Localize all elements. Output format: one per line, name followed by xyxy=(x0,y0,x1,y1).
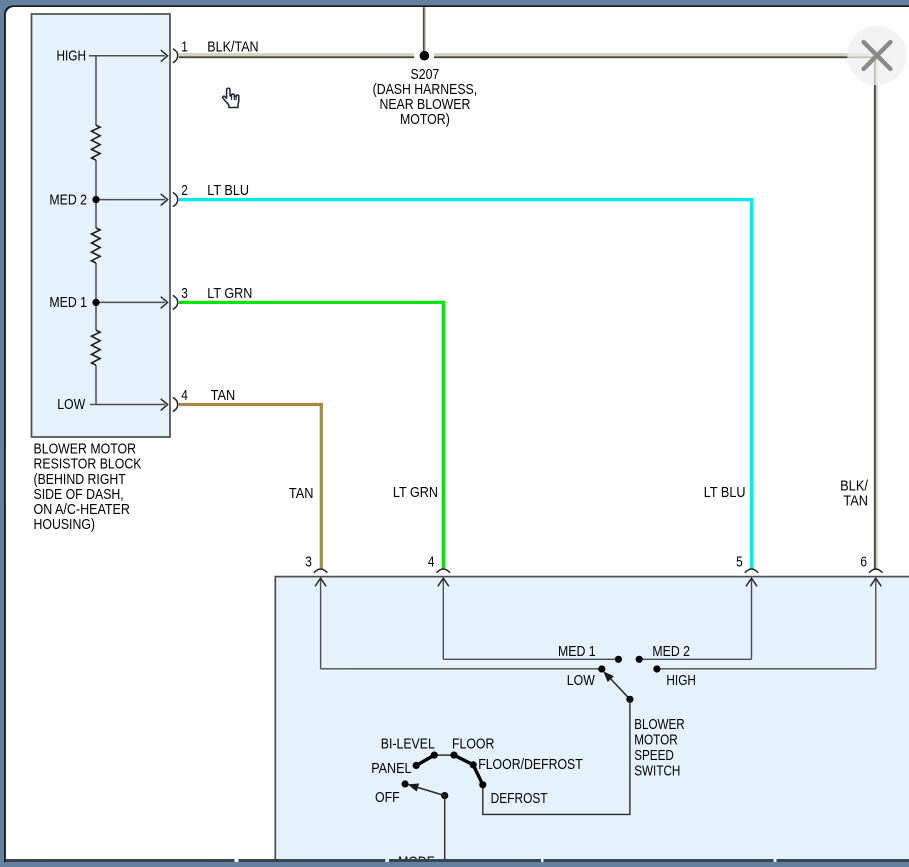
wire LT BLU horizontal xyxy=(179,198,753,201)
svg-text:3: 3 xyxy=(305,555,312,571)
svg-text:LT BLU: LT BLU xyxy=(704,485,746,501)
contact dot OFF xyxy=(402,780,409,787)
label S207 xyxy=(373,67,478,128)
wire TAN horizontal xyxy=(179,403,323,406)
svg-text:HIGH: HIGH xyxy=(57,49,87,65)
contact dot MED2 xyxy=(636,656,643,663)
mode wiper pivot dot xyxy=(441,792,448,799)
wire BLK/TAN S207 stub vertical xyxy=(423,7,426,52)
svg-text:DEFROST: DEFROST xyxy=(491,791,548,807)
svg-text:PANEL: PANEL xyxy=(371,761,411,777)
mode wiper arrow to OFF xyxy=(409,784,445,796)
svg-text:LT GRN: LT GRN xyxy=(393,485,438,501)
wire BLK/TAN horizontal xyxy=(179,53,878,58)
wire MED2 contact to pin5 xyxy=(639,658,751,660)
resistor element 3 xyxy=(92,330,101,365)
wire LT GRN vertical drop xyxy=(442,301,445,569)
wire pin3 to LOW contact xyxy=(321,668,602,670)
switch pin 5 cap xyxy=(745,569,759,573)
switch pin 3 arrow xyxy=(315,578,326,669)
wire LT BLU vertical drop xyxy=(750,198,753,569)
svg-text:MED 2: MED 2 xyxy=(49,192,87,208)
contact dot DEFROST xyxy=(479,781,486,788)
svg-text:2: 2 xyxy=(181,183,188,199)
svg-text:FLOOR: FLOOR xyxy=(452,736,494,752)
svg-text:LOW: LOW xyxy=(567,673,595,689)
switch pin 6 cap xyxy=(869,569,883,573)
svg-text:LOW: LOW xyxy=(57,397,85,413)
svg-text:HOUSING): HOUSING) xyxy=(34,517,96,533)
blower motor speed switch box xyxy=(275,577,909,867)
vertical drop label BLK/TAN xyxy=(840,479,869,510)
blower motor resistor block box xyxy=(32,14,171,437)
page bottom border band xyxy=(4,859,909,862)
svg-text:SPEED: SPEED xyxy=(634,748,674,764)
svg-text:S207: S207 xyxy=(411,67,440,83)
caption blower motor resistor block xyxy=(34,442,142,533)
svg-text:RESISTOR BLOCK: RESISTOR BLOCK xyxy=(34,457,142,473)
svg-text:BLOWER: BLOWER xyxy=(634,717,685,733)
junction dot MED 2 xyxy=(92,196,99,203)
svg-text:NEAR BLOWER: NEAR BLOWER xyxy=(379,97,470,113)
mouse cursor icon xyxy=(223,88,239,107)
wire pin4 to MED1 contact xyxy=(443,658,618,660)
wire LT GRN horizontal xyxy=(179,301,445,304)
svg-text:ON A/C-HEATER: ON A/C-HEATER xyxy=(34,502,130,518)
svg-text:FLOOR/DEFROST: FLOOR/DEFROST xyxy=(478,757,583,773)
outer background top band xyxy=(0,0,909,5)
wire TAN vertical drop xyxy=(320,403,323,569)
wire BLK/TAN right drop vertical xyxy=(874,53,878,569)
svg-text:HIGH: HIGH xyxy=(666,673,696,689)
svg-text:BLOWER MOTOR: BLOWER MOTOR xyxy=(34,442,137,458)
svg-text:1: 1 xyxy=(181,39,188,55)
svg-text:LT BLU: LT BLU xyxy=(207,183,249,199)
svg-text:5: 5 xyxy=(736,555,743,571)
contact dot FLOOR xyxy=(450,752,457,759)
contact dot PANEL xyxy=(413,762,420,769)
resistor element 1 xyxy=(92,125,101,160)
svg-text:OFF: OFF xyxy=(375,790,400,806)
speed switch wiper arrow xyxy=(604,672,630,699)
contact dot MED1 xyxy=(615,656,622,663)
contact dot HIGH xyxy=(653,665,660,672)
svg-text:4: 4 xyxy=(181,388,188,404)
svg-text:MOTOR: MOTOR xyxy=(634,733,678,749)
svg-text:(DASH HARNESS,: (DASH HARNESS, xyxy=(373,82,478,98)
svg-text:MOTOR): MOTOR) xyxy=(400,112,450,128)
junction dot MED 1 xyxy=(92,299,99,306)
connector pin 2 arc xyxy=(173,193,178,207)
svg-text:6: 6 xyxy=(860,555,867,571)
resistor chain vertical wire xyxy=(95,56,97,405)
connector pin 3 arc xyxy=(173,295,178,309)
outer background left band xyxy=(0,0,4,862)
internal wire LOW tap xyxy=(90,399,168,411)
svg-text:SIDE OF DASH,: SIDE OF DASH, xyxy=(34,487,124,503)
svg-text:TAN: TAN xyxy=(843,494,868,510)
svg-text:BLK/: BLK/ xyxy=(840,479,869,495)
svg-text:BI-LEVEL: BI-LEVEL xyxy=(381,736,435,752)
svg-text:TAN: TAN xyxy=(289,486,314,502)
svg-text:MED 2: MED 2 xyxy=(652,644,690,660)
speed switch wiper path to DEFROST xyxy=(483,699,630,814)
internal wire MED 1 tap xyxy=(96,297,168,309)
internal wire MED 2 tap xyxy=(96,194,168,206)
svg-text:3: 3 xyxy=(181,286,188,302)
svg-text:LT GRN: LT GRN xyxy=(207,286,252,302)
speed switch wiper pivot dot xyxy=(626,696,633,703)
switch pin 3 cap xyxy=(314,569,328,573)
connector pin 4 arc xyxy=(173,397,178,411)
switch pin 4 arrow xyxy=(438,578,449,659)
switch pin 5 arrow xyxy=(746,578,757,659)
svg-text:MED 1: MED 1 xyxy=(558,644,596,660)
mode contact strip arc xyxy=(416,755,434,765)
switch pin 4 cap xyxy=(437,569,451,573)
internal wire HIGH tap xyxy=(89,50,168,62)
splice S207 junction dot xyxy=(420,51,430,61)
svg-text:BLK/TAN: BLK/TAN xyxy=(207,39,258,55)
connector pin 1 arc xyxy=(173,49,178,63)
svg-text:(BEHIND RIGHT: (BEHIND RIGHT xyxy=(34,472,126,488)
caption blower motor speed switch xyxy=(634,717,685,780)
switch pin 6 arrow xyxy=(870,578,881,669)
svg-text:TAN: TAN xyxy=(211,388,236,404)
contact dot FLOOR/DEFROST xyxy=(470,761,477,768)
wire HIGH contact to pin6 xyxy=(657,668,876,670)
svg-text:SWITCH: SWITCH xyxy=(634,764,680,780)
svg-text:4: 4 xyxy=(428,555,435,571)
svg-text:MED 1: MED 1 xyxy=(49,295,87,311)
mode output wire xyxy=(444,796,446,860)
contact dot LOW xyxy=(598,665,605,672)
resistor element 2 xyxy=(92,228,101,263)
close button xyxy=(847,26,906,85)
contact dot BI-LEVEL xyxy=(431,752,438,759)
